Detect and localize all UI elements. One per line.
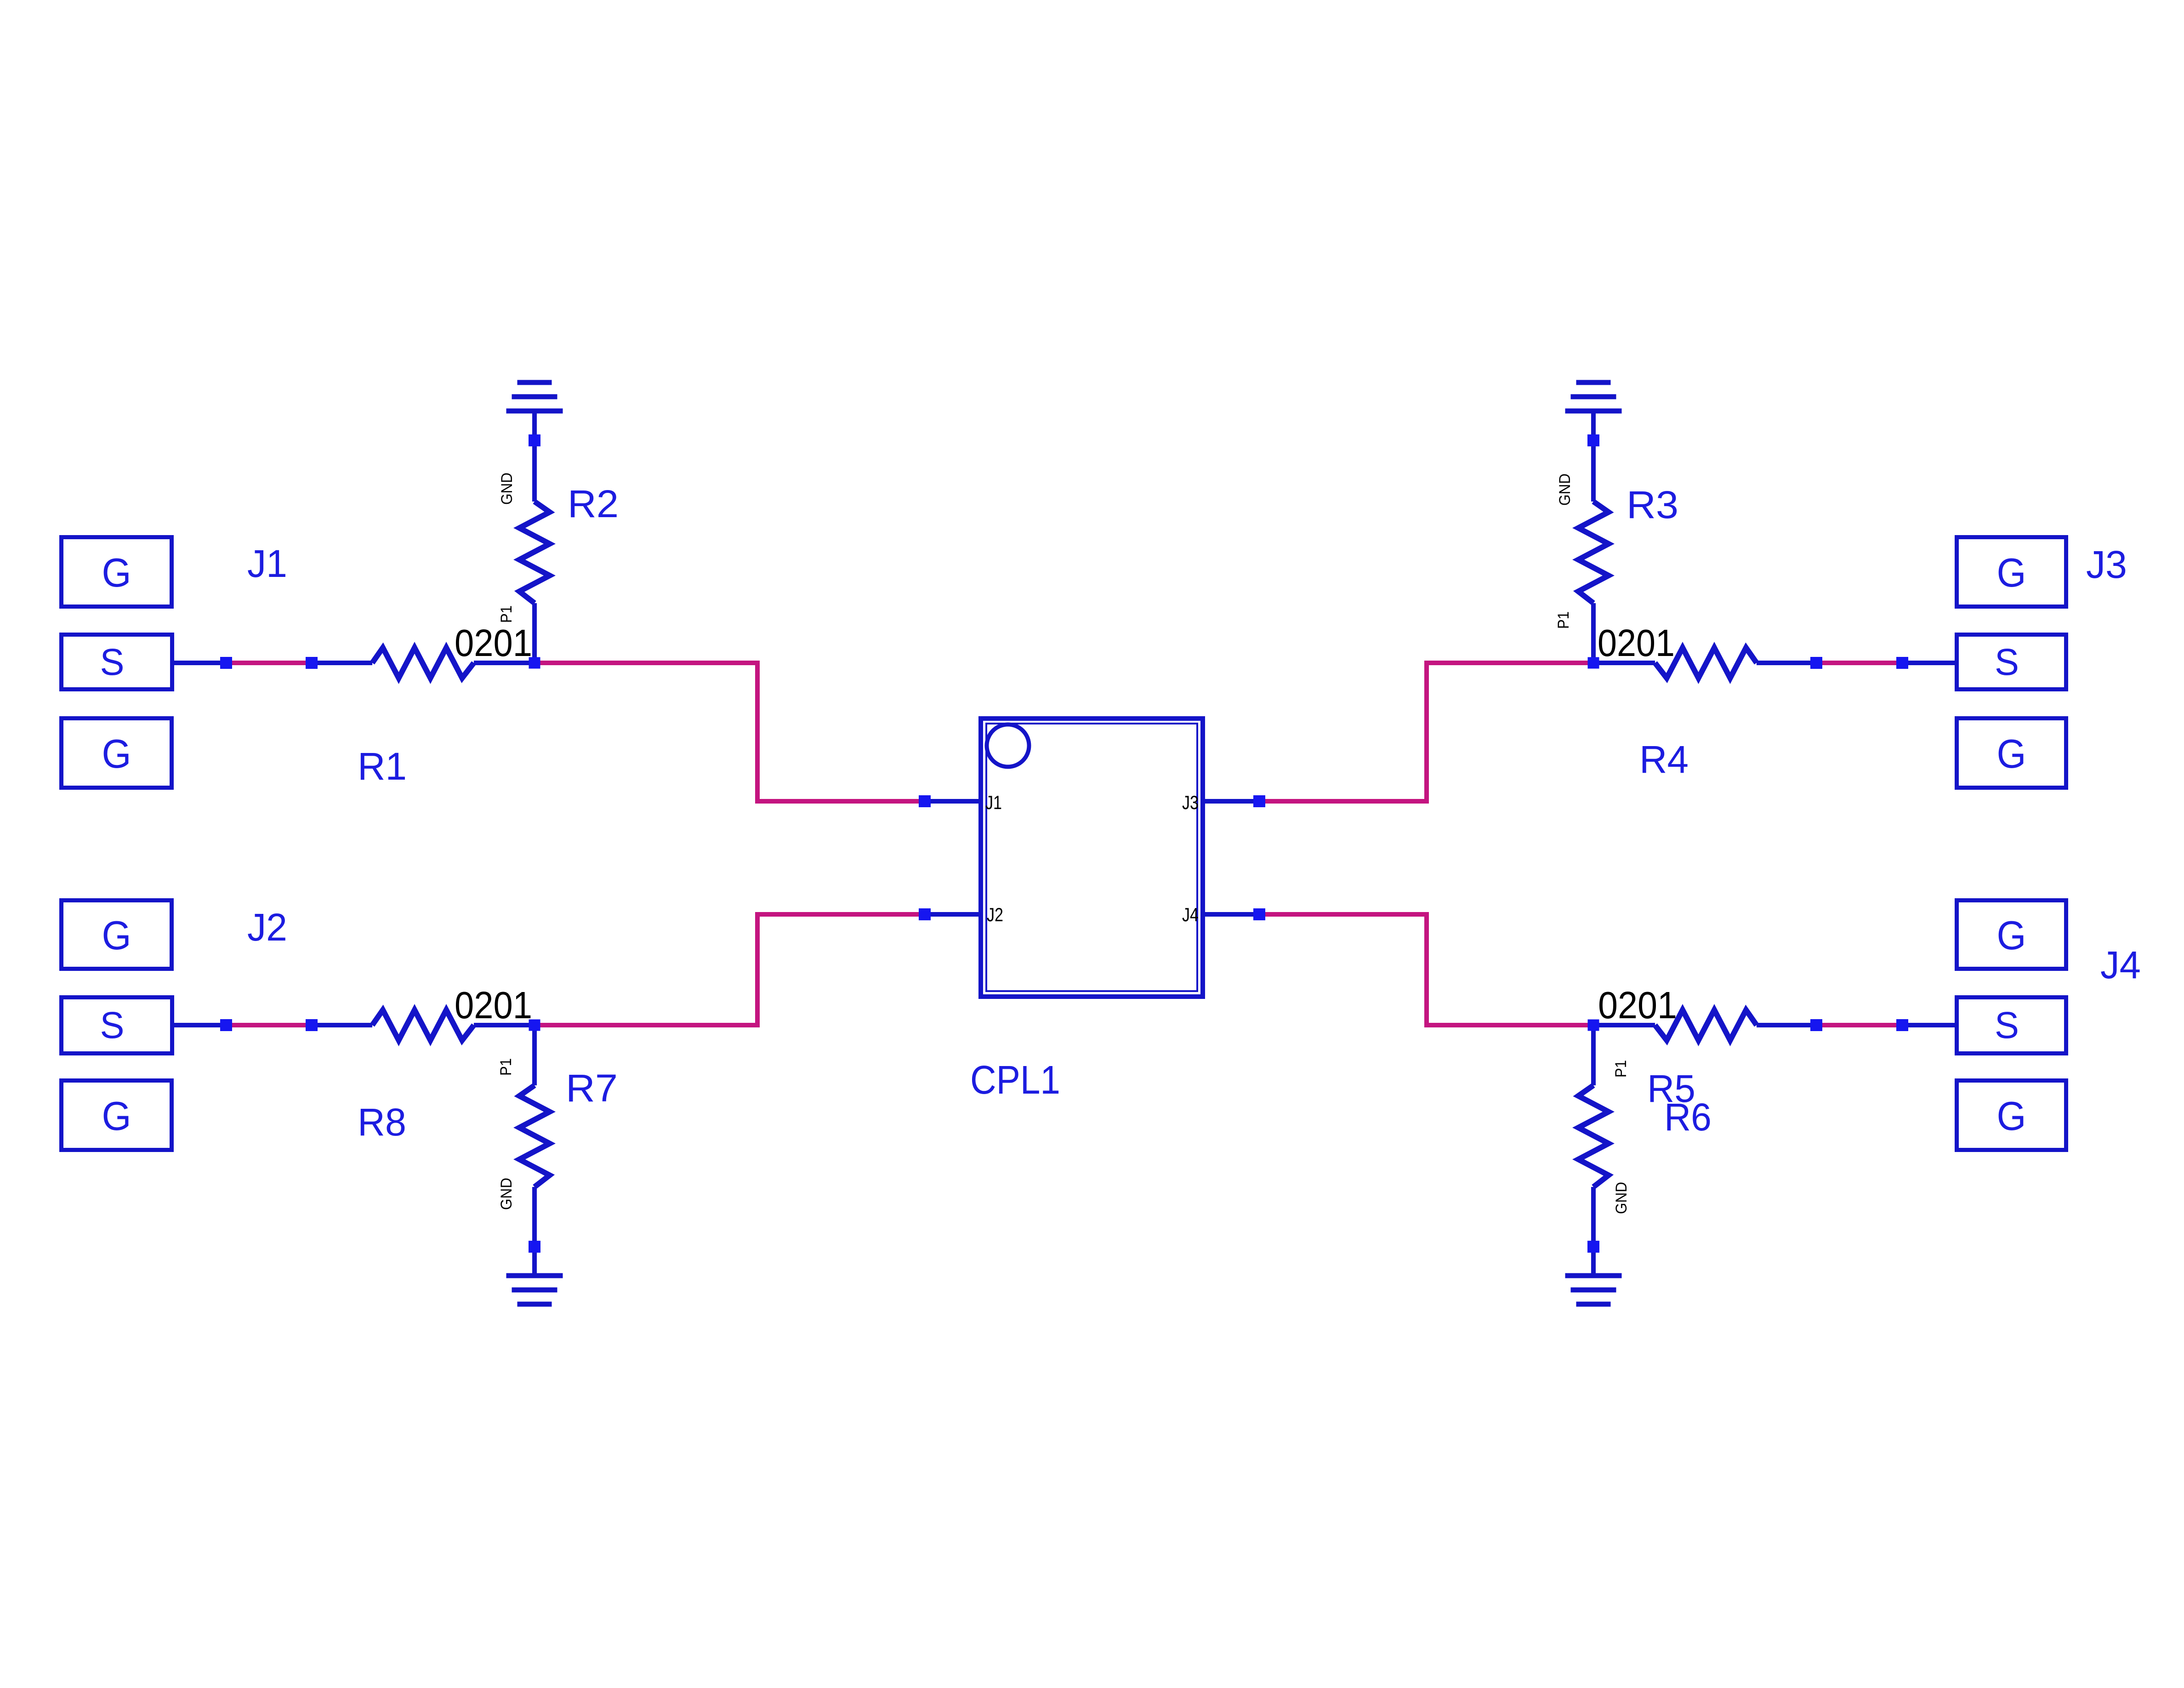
wire: junction to R7	[532, 1025, 537, 1085]
wire: R3 to ground node	[1591, 413, 1596, 502]
svg-text:S: S	[1995, 1004, 2019, 1046]
wire: R6 to node	[1757, 1023, 1816, 1027]
connector J1 pad G (top)	[62, 537, 172, 607]
node: CPL1 J3	[1253, 795, 1265, 807]
wire: node to J4 S pad	[1902, 1023, 1955, 1027]
node: CPL1 J2	[919, 908, 931, 920]
svg-text:R3: R3	[1627, 483, 1678, 526]
node: CPL1 J1	[919, 795, 931, 807]
node: J2 S wire	[220, 1019, 232, 1031]
net wire: R1 junction to CPL1 J1 (magenta)	[535, 663, 925, 801]
net wire: CPL1 J4 to R6 junction (magenta)	[1259, 914, 1593, 1025]
node: R2 GND pin	[529, 434, 540, 446]
ground symbol (bottom right)	[1565, 1273, 1622, 1307]
wire: J1 S pad to node	[174, 661, 226, 665]
wire: node to R8	[312, 1023, 372, 1027]
svg-text:P1: P1	[498, 605, 515, 623]
junction: R4/R3	[1588, 657, 1599, 669]
svg-text:GND: GND	[498, 473, 516, 505]
connector J1 pad S	[62, 635, 172, 690]
svg-text:R7: R7	[566, 1066, 618, 1110]
wire: R2 to ground node	[532, 413, 537, 502]
connector J4 pad G (bottom)	[1957, 1081, 2066, 1150]
svg-text:CPL1: CPL1	[970, 1058, 1060, 1102]
svg-text:S: S	[100, 641, 125, 683]
resistor R1	[372, 648, 474, 678]
ground symbol (bottom left)	[506, 1273, 563, 1307]
node: J2 S wire 2	[306, 1019, 318, 1031]
connector J3 pad G (top)	[1957, 537, 2066, 607]
svg-text:0201: 0201	[455, 984, 532, 1026]
wire: junction to R5	[1591, 1025, 1596, 1085]
net wire: CPL1 J3 to R4 junction (magenta)	[1259, 663, 1593, 801]
wire: CPL1 pin J1 stub	[925, 799, 978, 804]
svg-text:J4: J4	[1182, 904, 1199, 925]
wire: R8 to junction	[474, 1023, 535, 1027]
wire: R4 to node	[1757, 661, 1816, 665]
resistor R7	[519, 1085, 550, 1187]
net wire: R8 junction to CPL1 J2 (magenta)	[535, 914, 925, 1025]
svg-text:R4: R4	[1639, 738, 1689, 781]
ground symbol (top right)	[1565, 380, 1622, 414]
svg-text:G: G	[1997, 912, 2026, 958]
ground symbol (top left)	[506, 380, 563, 414]
wire: CPL1 pin J2 stub	[925, 912, 978, 917]
connector J2 pad S	[62, 998, 172, 1054]
svg-text:0201: 0201	[455, 622, 532, 664]
net wire: J4 S-pad segment (magenta)	[1816, 1023, 1902, 1027]
connector J4 pad S	[1957, 998, 2066, 1054]
svg-text:G: G	[102, 731, 131, 776]
svg-text:G: G	[1997, 731, 2026, 776]
connector J3 pad G (bottom)	[1957, 719, 2066, 788]
svg-text:J1: J1	[985, 792, 1002, 813]
node: J1 S wire	[220, 657, 232, 669]
coupler CPL1 body	[981, 719, 1203, 997]
svg-text:G: G	[1997, 1093, 2026, 1139]
svg-text:R2: R2	[568, 482, 619, 525]
node: J3 S wire	[1810, 657, 1822, 669]
wire: junction to R6	[1593, 1023, 1655, 1027]
wire: CPL1 pin J4 stub	[1205, 912, 1259, 917]
wire: junction to R2	[532, 603, 537, 663]
resistor R8	[372, 1010, 474, 1040]
svg-text:GND: GND	[1556, 473, 1574, 506]
connector J2 pad G (bottom)	[62, 1081, 172, 1150]
svg-text:J2: J2	[987, 904, 1003, 925]
node: R7 GND pin	[529, 1241, 540, 1253]
resistor R3	[1578, 502, 1609, 603]
svg-text:R5: R5	[1647, 1067, 1695, 1110]
svg-text:J3: J3	[2086, 543, 2127, 586]
wire: R5 to ground node	[1591, 1187, 1596, 1276]
svg-text:R8: R8	[358, 1101, 406, 1144]
connector J3 pad S	[1957, 635, 2066, 690]
resistor R6	[1655, 1010, 1757, 1040]
svg-text:S: S	[1995, 641, 2019, 683]
node: J3 S wire 2	[1896, 657, 1908, 669]
svg-text:G: G	[102, 1093, 131, 1139]
resistor R5	[1578, 1085, 1609, 1187]
svg-text:G: G	[102, 550, 131, 595]
net wire: J1 S-pad segment (magenta)	[226, 661, 312, 665]
wire: CPL1 pin J3 stub	[1205, 799, 1259, 804]
connector J1 pad G (bottom)	[62, 719, 172, 788]
connector J4 pad G (top)	[1957, 901, 2066, 969]
junction: R6/R5	[1588, 1020, 1599, 1031]
wire: node to J3 S pad	[1902, 661, 1955, 665]
wire: junction to R4	[1593, 661, 1655, 665]
svg-text:J1: J1	[247, 542, 287, 585]
svg-text:GND: GND	[1613, 1182, 1630, 1214]
svg-text:P1: P1	[1555, 611, 1572, 629]
wire: R7 to ground node	[532, 1187, 537, 1276]
node: J4 S wire	[1810, 1019, 1822, 1031]
node: J4 S wire 2	[1896, 1019, 1908, 1031]
connector J2 pad G (top)	[62, 901, 172, 969]
wire: node to R1	[312, 661, 372, 665]
node: CPL1 J4	[1253, 908, 1265, 920]
net wire: J2 S-pad segment (magenta)	[226, 1023, 312, 1027]
svg-text:0201: 0201	[1598, 622, 1675, 664]
svg-text:P1: P1	[1612, 1060, 1630, 1078]
wire: junction to R3	[1591, 603, 1596, 663]
svg-text:J3: J3	[1182, 792, 1199, 813]
net wire: J3 S-pad segment (magenta)	[1816, 661, 1902, 665]
svg-text:GND: GND	[498, 1178, 515, 1210]
resistor R2	[519, 502, 550, 603]
svg-text:J4: J4	[2100, 943, 2141, 987]
wire: J2 S pad to node	[174, 1023, 226, 1027]
svg-text:G: G	[1997, 550, 2026, 595]
junction: R1/R2	[529, 657, 540, 669]
junction: R8/R7	[529, 1020, 540, 1031]
resistor R4	[1655, 648, 1757, 678]
svg-text:J2: J2	[247, 906, 287, 949]
node: J1 S wire 2	[306, 657, 318, 669]
svg-text:0201: 0201	[1598, 984, 1677, 1026]
svg-text:S: S	[100, 1004, 125, 1046]
svg-text:G: G	[102, 912, 131, 958]
node: R5 GND pin	[1587, 1241, 1599, 1253]
node: R3 GND pin	[1587, 434, 1599, 446]
svg-text:P1: P1	[497, 1058, 515, 1076]
svg-text:R1: R1	[358, 745, 407, 788]
wire: R1 to junction	[474, 661, 535, 665]
